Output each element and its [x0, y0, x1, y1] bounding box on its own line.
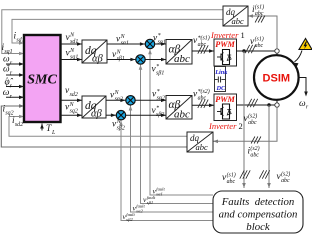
svg-text:L: L [51, 130, 55, 136]
svg-text:abc: abc [227, 179, 236, 185]
svg-text:Inverter 2: Inverter 2 [208, 121, 243, 131]
svg-text:abc: abc [255, 11, 264, 17]
svg-text:abc: abc [255, 43, 264, 49]
svg-text:abc: abc [248, 120, 257, 126]
svg-text:abc: abc [174, 109, 190, 121]
svg-text:sβ1: sβ1 [156, 70, 164, 76]
svg-text:PWM: PWM [215, 40, 235, 49]
svg-text:abc: abc [196, 142, 209, 152]
svg-text:*: * [156, 64, 159, 70]
svg-text:SMC: SMC [27, 73, 57, 88]
svg-text:Link: Link [214, 69, 228, 76]
svg-text:sα1: sα1 [158, 39, 166, 45]
svg-text:abc: abc [174, 53, 190, 65]
svg-text:*: * [157, 89, 160, 95]
svg-text:sd2: sd2 [15, 122, 23, 128]
svg-text:(s2): (s2) [250, 145, 259, 152]
svg-text:(s1): (s1) [255, 4, 264, 11]
svg-text:sd1: sd1 [16, 37, 24, 43]
svg-text:*: * [156, 106, 159, 112]
svg-text:DC: DC [216, 85, 227, 92]
svg-text:(s2): (s2) [248, 113, 257, 120]
svg-text:and compensation: and compensation [219, 209, 298, 221]
svg-text:(s1): (s1) [227, 172, 236, 179]
svg-text:*: * [158, 33, 161, 39]
svg-text:block: block [246, 221, 270, 233]
svg-text:αβ: αβ [91, 109, 103, 120]
svg-text:sβ2: sβ2 [126, 217, 133, 222]
svg-text:sα2: sα2 [136, 209, 143, 214]
svg-text:sα2: sα2 [115, 96, 123, 102]
svg-text:sα1: sα1 [121, 40, 129, 46]
svg-text:abc: abc [198, 42, 207, 48]
svg-text:Inverter 1: Inverter 1 [210, 30, 245, 40]
svg-text:*(s2): *(s2) [198, 88, 210, 95]
svg-text:sq1: sq1 [70, 54, 78, 60]
svg-text:DSIM: DSIM [263, 72, 291, 84]
svg-text:sq2: sq2 [70, 108, 78, 114]
svg-text:sβ1: sβ1 [117, 56, 125, 62]
svg-text:(s2): (s2) [281, 171, 290, 178]
svg-text:abc: abc [250, 152, 259, 158]
svg-text:sα2: sα2 [157, 95, 165, 101]
svg-text:abc: abc [281, 178, 290, 184]
svg-text:sβ2: sβ2 [156, 112, 164, 118]
svg-text:sd1: sd1 [70, 39, 78, 45]
svg-text:Faults detection: Faults detection [221, 196, 295, 208]
svg-text:*(s1): *(s1) [198, 35, 210, 42]
svg-text:sd2: sd2 [70, 92, 78, 98]
svg-text:abc: abc [198, 95, 207, 101]
svg-text:abc: abc [232, 16, 245, 26]
svg-text:PWM: PWM [215, 95, 235, 104]
svg-text:sβ1: sβ1 [147, 200, 153, 205]
svg-text:sα1: sα1 [156, 192, 163, 197]
svg-text:αβ: αβ [92, 54, 104, 65]
svg-text:(s1): (s1) [255, 36, 264, 43]
svg-text:sβ2: sβ2 [117, 125, 125, 131]
